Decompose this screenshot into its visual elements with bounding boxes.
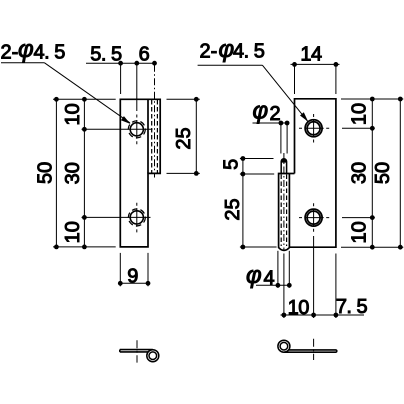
right phi2 extension right bbox=[286, 125, 288, 154]
left label 2-phi4.5 leader underline bbox=[1, 62, 45, 64]
svg-text:10: 10 bbox=[288, 297, 310, 319]
right pin outline with dome bbox=[281, 159, 286, 174]
svg-text:φ: φ bbox=[18, 36, 34, 63]
svg-text:10: 10 bbox=[62, 103, 84, 125]
left top extension line hole center bbox=[136, 65, 138, 111]
bottom-right side view centerline bbox=[313, 339, 315, 360]
right knuckle outline bbox=[279, 174, 290, 251]
right hole H3 bbox=[307, 122, 320, 135]
svg-text:30: 30 bbox=[62, 162, 84, 184]
left hole H1 bbox=[130, 123, 143, 136]
left bottom dim 9 line bbox=[120, 282, 148, 284]
bottom-right side view curl inner bbox=[280, 342, 288, 350]
right side extension top bbox=[341, 98, 403, 100]
right outer dim dot bottom bbox=[398, 245, 403, 250]
svg-text:30: 30 bbox=[348, 162, 370, 184]
bottom-left side view plate bar bottom line bbox=[120, 351, 148, 353]
bottom-left side view curl outer bbox=[147, 350, 159, 362]
left label 2-phi4.5 leader line bbox=[45, 63, 131, 123]
svg-text:50: 50 bbox=[34, 162, 56, 184]
svg-text:φ: φ bbox=[253, 98, 269, 125]
svg-text:25: 25 bbox=[173, 127, 195, 149]
right top dim 14 dot right bbox=[334, 62, 339, 67]
left plate bend line bbox=[147, 99, 149, 173]
left hole H2 vertical centerline bbox=[136, 203, 138, 233]
right label 2-phi4.5 leader line bbox=[262, 65, 307, 121]
right label phi2 underline bbox=[253, 122, 289, 124]
right label phi4 dot right bbox=[287, 283, 292, 288]
right hole H4 bbox=[307, 211, 320, 224]
right bottom extension plate edge bbox=[335, 254, 337, 319]
svg-text:5. 5: 5. 5 bbox=[90, 44, 122, 66]
right label phi4 dot left bbox=[276, 283, 281, 288]
right phi4 extension left bbox=[277, 251, 279, 288]
svg-text:2: 2 bbox=[270, 103, 281, 125]
right dim 5/25 line bbox=[242, 159, 244, 248]
left dim 25 line bbox=[195, 99, 197, 173]
right inner dim dot hole2 bbox=[370, 215, 375, 220]
svg-text:9: 9 bbox=[127, 266, 138, 288]
left hole H2 countersink dashed bbox=[128, 209, 145, 226]
bottom-right side view curl outer bbox=[278, 340, 290, 352]
left inner dim dot bottom edge bbox=[82, 245, 87, 250]
right side extension bottom bbox=[341, 246, 403, 248]
left bottom dim 9 extension right bbox=[147, 253, 149, 286]
right bottom dim line 10/7.5 bbox=[281, 314, 365, 316]
svg-text:5: 5 bbox=[221, 159, 243, 170]
right hole H3 countersink bbox=[305, 120, 322, 137]
right bottom dim dot pin center bbox=[282, 313, 287, 318]
left inner dim line 10/30/10 bbox=[83, 99, 85, 247]
right plate step line bbox=[289, 173, 294, 175]
svg-text:14: 14 bbox=[300, 44, 322, 66]
right dim 5 extension top bbox=[240, 158, 274, 160]
left outer dim line 50 bbox=[55, 99, 57, 247]
right plate outline bbox=[289, 99, 336, 247]
right inner dim dot bottom bbox=[370, 245, 375, 250]
left hole H2 horizontal centerline bbox=[82, 216, 151, 218]
right hole H4 countersink bbox=[305, 209, 322, 226]
left bottom dim 9 extension left bbox=[119, 253, 121, 286]
right label 2-phi4.5 underline bbox=[198, 64, 263, 66]
left knuckle centerline bbox=[154, 65, 156, 178]
left inner dim dot top edge bbox=[82, 97, 87, 102]
right inner dim line 10/30/10 bbox=[371, 99, 373, 247]
right bottom dim dot plate edge bbox=[334, 313, 339, 318]
svg-text:10: 10 bbox=[348, 103, 370, 125]
left hole H1 vertical centerline bbox=[136, 115, 138, 145]
left label 2-phi4.5 arrowhead bbox=[121, 116, 131, 124]
right top dim 14 dot left bbox=[292, 62, 297, 67]
left outer dim 50 dot top bbox=[54, 97, 59, 102]
right label phi4 underline bbox=[256, 284, 291, 286]
left top dim dot at hole center bbox=[134, 61, 139, 66]
right inner dim dot hole1 bbox=[370, 126, 375, 131]
right label 2-phi4.5 arrowhead bbox=[300, 112, 308, 121]
left side extension line bottom bbox=[53, 246, 116, 248]
svg-text:6: 6 bbox=[139, 44, 150, 66]
right dim extension knuckle bottom bbox=[240, 246, 277, 248]
right pin centerline bbox=[283, 153, 285, 251]
right top dim 14 extension left bbox=[294, 66, 296, 94]
svg-text:φ: φ bbox=[246, 262, 262, 289]
right dim extension knuckle top bbox=[240, 173, 274, 175]
left top dim dot at knuckle center bbox=[152, 61, 157, 66]
right bottom extension pin center bbox=[283, 254, 285, 319]
right pin cap fill bbox=[281, 159, 287, 162]
svg-text:10: 10 bbox=[348, 221, 370, 243]
right top dim 14 line bbox=[291, 63, 340, 65]
right hole H3 horizontal centerline bbox=[299, 127, 329, 129]
left top dimension line 5.5 and 6 bbox=[86, 62, 157, 64]
right side extension hole2 bbox=[342, 217, 375, 219]
right phi4 extension right bbox=[288, 251, 290, 288]
left dim 25 dot bottom bbox=[194, 171, 199, 176]
bottom-right side view plate bar top line bbox=[289, 349, 337, 351]
left bottom dim 9 dot right bbox=[146, 281, 151, 286]
left dim 25 extension bottom bbox=[167, 172, 200, 174]
right hole H4 horizontal centerline bbox=[299, 217, 329, 219]
right label phi2 dot left bbox=[279, 121, 284, 126]
left inner dim dot hole2 bbox=[82, 215, 87, 220]
right phi2 extension left bbox=[280, 125, 282, 154]
right bottom extension hole center bbox=[313, 236, 315, 318]
bottom-left side view plate bar top line bbox=[120, 349, 153, 351]
right dim dot knuckle top bbox=[241, 172, 246, 177]
left inner dim dot hole1 bbox=[82, 127, 87, 132]
left dim 25 dot top bbox=[194, 97, 199, 102]
right bottom dim dot hole center bbox=[311, 313, 316, 318]
right top dim 14 extension right bbox=[335, 66, 337, 94]
svg-text:50: 50 bbox=[372, 162, 394, 184]
left dim 25 extension top bbox=[167, 98, 200, 100]
left knuckle hidden line inner-right bbox=[156, 100, 158, 173]
bottom-left side view curl inner bbox=[149, 352, 157, 360]
left knuckle hidden line inner-left bbox=[151, 100, 153, 173]
left bottom dim 9 dot left bbox=[118, 281, 123, 286]
bottom-left side view plate bar left cap bbox=[119, 350, 121, 352]
right outer dim line 50 bbox=[399, 99, 401, 247]
bottom-left side view centerline bbox=[136, 340, 138, 362]
svg-text:4. 5: 4. 5 bbox=[233, 41, 265, 63]
bottom-right side view plate bar right cap bbox=[336, 350, 338, 352]
right dim dot pin top bbox=[241, 156, 246, 161]
right hole H3 vertical centerline bbox=[313, 114, 315, 143]
left hole H1 horizontal centerline bbox=[82, 128, 153, 130]
right label phi2 dot right bbox=[285, 121, 290, 126]
right inner dim dot top bbox=[370, 97, 375, 102]
svg-text:2-: 2- bbox=[200, 41, 218, 63]
right outer dim dot top bbox=[398, 97, 403, 102]
left hole H1 countersink dashed bbox=[128, 121, 145, 138]
svg-text:4. 5: 4. 5 bbox=[34, 42, 66, 64]
svg-text:φ: φ bbox=[219, 36, 235, 63]
svg-text:10: 10 bbox=[62, 221, 84, 243]
left hole H2 bbox=[130, 211, 143, 224]
left outer dim 50 dot bottom bbox=[54, 245, 59, 250]
svg-text:4: 4 bbox=[264, 268, 275, 290]
right pin hidden line right bbox=[286, 175, 288, 247]
svg-text:25: 25 bbox=[222, 198, 244, 220]
svg-text:2-: 2- bbox=[1, 42, 19, 64]
bottom-right side view plate bar bottom line bbox=[284, 351, 337, 353]
left top dim dot at plate edge bbox=[118, 61, 123, 66]
svg-text:7. 5: 7. 5 bbox=[336, 296, 368, 318]
left top extension line plate edge bbox=[120, 65, 122, 94]
left plate outline bbox=[120, 99, 160, 247]
right hole H4 vertical centerline bbox=[313, 203, 315, 232]
left side extension line top bbox=[53, 98, 116, 100]
right pin hidden line left bbox=[280, 175, 282, 247]
right dim dot knuckle bottom bbox=[241, 245, 246, 250]
right side extension hole1 bbox=[342, 127, 375, 129]
